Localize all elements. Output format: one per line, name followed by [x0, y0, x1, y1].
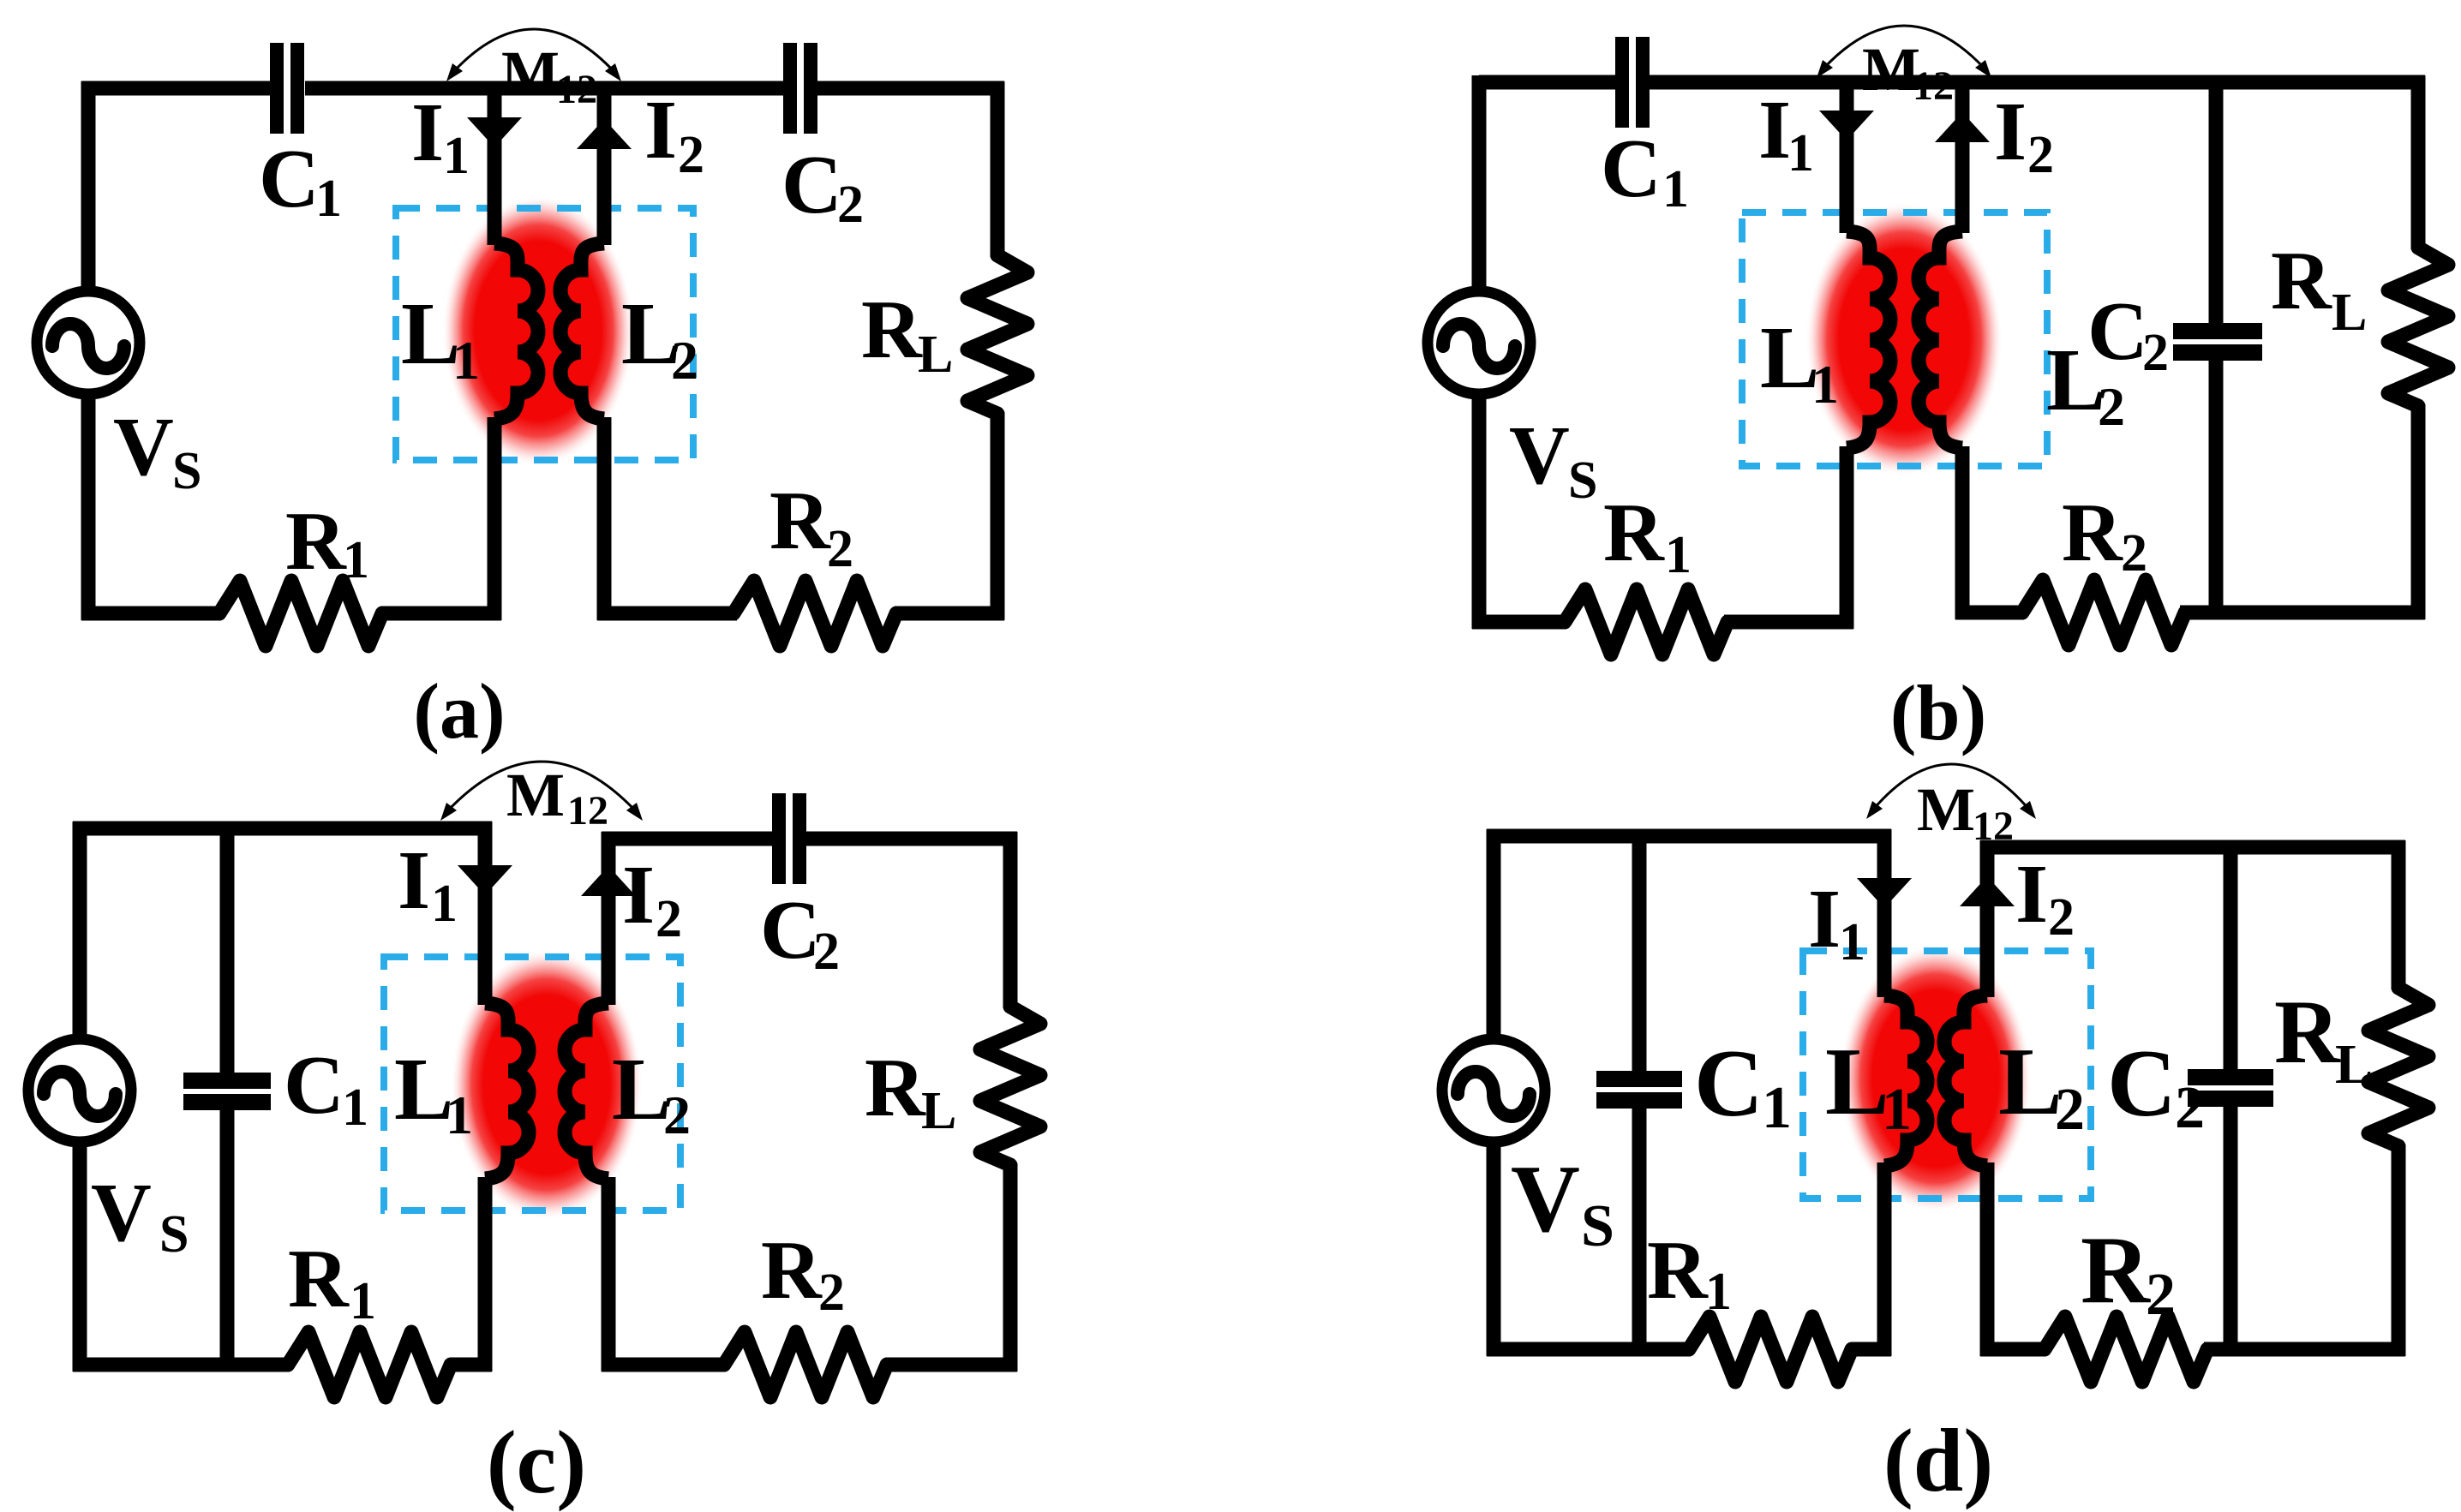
- coupling glow (b): [1805, 202, 2003, 476]
- svg-text:2: 2: [663, 1085, 691, 1145]
- wire left upper (c): [73, 822, 87, 1039]
- svg-text:2: 2: [2175, 1075, 2205, 1141]
- svg-text:R: R: [2271, 235, 2332, 327]
- svg-text:C: C: [2087, 285, 2148, 378]
- wire L2 branch upper (b): [1955, 75, 1970, 233]
- wire top secondary (d): [1980, 840, 2405, 855]
- wire L1 branch lower (d): [1877, 1162, 1892, 1356]
- svg-text:I: I: [411, 87, 444, 179]
- wire L2 branch lower (a): [597, 417, 612, 620]
- svg-text:2: 2: [2048, 888, 2075, 947]
- wire bottom-left (b): [1472, 615, 1566, 630]
- svg-text:1: 1: [452, 330, 480, 391]
- wire bottom secondary-right (b): [2180, 606, 2425, 620]
- svg-text:1: 1: [1882, 1077, 1912, 1143]
- svg-text:C: C: [1601, 123, 1662, 215]
- capacitor C1 (d): [1596, 1071, 1682, 1087]
- svg-text:(b): (b): [1890, 669, 1986, 756]
- capacitor C2 (b): [2173, 323, 2262, 339]
- svg-text:R: R: [288, 1233, 350, 1325]
- inductor L2 (c): [565, 1003, 608, 1179]
- svg-text:2: 2: [2098, 376, 2125, 437]
- current arrow I1 (a): [467, 117, 522, 147]
- wire bottom secondary-left (a): [597, 607, 737, 621]
- svg-text:M: M: [506, 761, 565, 829]
- capacitor C1 (c): [183, 1073, 271, 1089]
- current arrow I1 (d): [1857, 878, 1912, 908]
- wire top-right segment (b): [1650, 75, 2425, 90]
- wire bottom to L1 (b): [1724, 615, 1853, 630]
- inductor L2 (d): [1944, 995, 1987, 1166]
- svg-text:L: L: [918, 326, 953, 384]
- svg-text:1: 1: [1787, 124, 1814, 182]
- coupling glow (c): [451, 949, 643, 1220]
- svg-text:S: S: [1581, 1193, 1614, 1259]
- wire bottom to L1 (a): [380, 607, 501, 621]
- svg-text:1: 1: [431, 875, 458, 933]
- svg-text:R: R: [861, 284, 923, 376]
- wire left upper (a): [81, 81, 96, 292]
- svg-text:R: R: [1603, 487, 1665, 579]
- svg-text:V: V: [1509, 409, 1570, 502]
- svg-text:I: I: [622, 849, 655, 941]
- wire L2 branch upper (a): [597, 81, 612, 245]
- wire left lower (a): [81, 393, 96, 620]
- svg-text:L: L: [1825, 1029, 1889, 1135]
- capacitor C1 (a): [270, 43, 284, 134]
- svg-text:2: 2: [671, 330, 698, 391]
- wire L2 branch lower (b): [1955, 446, 1970, 619]
- svg-text:L: L: [394, 1040, 453, 1138]
- wire L1 branch lower (b): [1840, 446, 1854, 629]
- inductor L2 (b): [1919, 231, 1962, 448]
- resistor R1 (d): [1689, 1317, 1852, 1382]
- svg-text:I: I: [1808, 873, 1841, 965]
- wire top primary (d): [1487, 829, 1891, 844]
- wire right upper (a): [991, 81, 1005, 257]
- svg-text:12: 12: [556, 67, 597, 112]
- wire C1 branch lower (c): [220, 1109, 235, 1365]
- svg-text:L: L: [1760, 308, 1819, 407]
- wire left upper (b): [1472, 75, 1487, 292]
- svg-text:C: C: [781, 139, 842, 231]
- svg-text:S: S: [1568, 451, 1597, 510]
- wire right lower (d): [2392, 1144, 2406, 1356]
- wire top secondary-right (c): [806, 832, 1017, 846]
- resistor R2 (d): [2045, 1317, 2207, 1382]
- svg-text:1: 1: [1662, 160, 1689, 218]
- svg-text:12: 12: [1913, 63, 1954, 109]
- svg-text:2: 2: [656, 890, 682, 948]
- voltage source VS (b): [1428, 291, 1530, 394]
- svg-text:C: C: [1694, 1031, 1763, 1137]
- wire right upper (b): [2411, 75, 2426, 249]
- svg-text:R: R: [2062, 487, 2123, 579]
- wire L2 branch upper (c): [602, 832, 616, 1005]
- wire left upper (d): [1487, 829, 1501, 1040]
- svg-text:1: 1: [443, 127, 470, 185]
- wire L2 branch lower (d): [1980, 1162, 1995, 1356]
- capacitor C2 (d): [2188, 1069, 2273, 1085]
- svg-text:1: 1: [350, 1272, 376, 1330]
- capacitor C1 (b): [1615, 37, 1629, 128]
- svg-text:2: 2: [2142, 324, 2169, 382]
- wire top-middle segment (a): [305, 81, 783, 96]
- svg-text:C: C: [2107, 1031, 2177, 1137]
- coupling glow (d): [1840, 945, 2032, 1212]
- wire C1 branch upper (c): [220, 828, 235, 1073]
- svg-text:1: 1: [446, 1085, 473, 1145]
- svg-text:I: I: [644, 84, 677, 176]
- svg-text:R: R: [761, 1224, 823, 1317]
- resistor R2 (a): [734, 581, 896, 646]
- resistor RL (c): [980, 1007, 1040, 1165]
- wire bottom to L1 (c): [451, 1358, 492, 1372]
- wire bottom secondary-right (a): [895, 607, 1004, 621]
- svg-text:I: I: [398, 834, 430, 927]
- svg-text:1: 1: [342, 1079, 368, 1137]
- svg-text:V: V: [113, 401, 174, 493]
- inductor L1 (d): [1884, 995, 1927, 1166]
- resistor RL (d): [2368, 988, 2428, 1146]
- wire C2 branch upper (b): [2209, 75, 2224, 326]
- wire right lower (b): [2411, 404, 2426, 619]
- svg-text:1: 1: [343, 531, 369, 589]
- resistor RL (a): [967, 255, 1027, 414]
- wire L1 branch upper (a): [488, 81, 502, 245]
- wire C2 branch lower (b): [2209, 360, 2224, 619]
- svg-text:R: R: [2274, 982, 2341, 1082]
- current arrow I2 (c): [581, 866, 636, 896]
- resistor R2 (c): [724, 1332, 887, 1397]
- capacitor C2 (a): [783, 43, 797, 134]
- wire L2 branch lower (c): [602, 1177, 616, 1372]
- svg-text:S: S: [159, 1205, 189, 1264]
- svg-text:C: C: [760, 884, 821, 977]
- wire left lower (b): [1472, 393, 1487, 629]
- wire bottom secondary-right (d): [2204, 1342, 2405, 1357]
- wire C2 branch upper (d): [2224, 847, 2238, 1069]
- svg-text:(a): (a): [413, 667, 505, 755]
- mutual inductance arrow M12 (c): [447, 762, 636, 811]
- resistor R2 (b): [2022, 580, 2185, 645]
- mutual inductance arrow M12 (a): [453, 29, 614, 72]
- svg-text:L: L: [921, 1082, 956, 1140]
- svg-text:C: C: [284, 1039, 344, 1132]
- svg-text:1: 1: [1762, 1075, 1792, 1141]
- svg-text:1: 1: [1811, 354, 1839, 415]
- svg-text:L: L: [2335, 1033, 2373, 1096]
- wire top secondary-left (c): [602, 832, 773, 846]
- svg-text:2: 2: [813, 923, 840, 981]
- svg-text:2: 2: [2146, 1262, 2176, 1328]
- wire bottom secondary-left (b): [1955, 606, 2024, 620]
- wire left lower (c): [73, 1141, 87, 1372]
- capacitor C2 (c): [772, 793, 786, 884]
- svg-text:(d): (d): [1883, 1410, 1993, 1510]
- wire C1 branch upper (d): [1632, 836, 1647, 1072]
- wire L1 branch lower (a): [488, 417, 502, 620]
- wire L1 branch upper (c): [478, 822, 493, 1005]
- svg-text:2: 2: [818, 1264, 845, 1322]
- wire right upper (d): [2392, 840, 2406, 989]
- svg-text:12: 12: [1973, 804, 2014, 849]
- svg-text:L: L: [612, 1040, 671, 1138]
- svg-text:L: L: [1998, 1029, 2063, 1135]
- wire bottom-left (c): [73, 1358, 290, 1372]
- wire L1 branch upper (b): [1840, 75, 1854, 233]
- wire top-left segment (b): [1479, 75, 1616, 90]
- svg-text:R: R: [1647, 1224, 1709, 1317]
- svg-text:2: 2: [2055, 1077, 2085, 1143]
- svg-text:1: 1: [1705, 1263, 1732, 1321]
- svg-text:2: 2: [2027, 126, 2054, 184]
- svg-text:1: 1: [1665, 526, 1692, 584]
- svg-text:2: 2: [827, 520, 853, 578]
- coupling region dashed box (c): [384, 957, 680, 1210]
- wire bottom to L1 (d): [1852, 1342, 1891, 1357]
- wire bottom-left (d): [1487, 1342, 1691, 1357]
- wire bottom-left (a): [81, 607, 221, 621]
- current arrow I2 (d): [1960, 876, 2015, 906]
- mutual inductance arrow M12 (b): [1823, 26, 1985, 69]
- wire L2 branch upper (d): [1980, 840, 1995, 997]
- inductor L2 (a): [560, 243, 604, 419]
- svg-text:R: R: [865, 1042, 926, 1134]
- svg-text:12: 12: [567, 788, 608, 834]
- current arrow I2 (b): [1935, 112, 1990, 142]
- coupling region dashed box (a): [396, 208, 693, 460]
- svg-text:I: I: [2015, 848, 2048, 941]
- wire bottom secondary-right (c): [885, 1358, 1017, 1372]
- svg-text:2: 2: [837, 176, 864, 234]
- inductor L1 (b): [1847, 231, 1890, 448]
- wire bottom secondary-left (c): [602, 1358, 726, 1372]
- svg-text:M: M: [1917, 775, 1975, 844]
- svg-text:R: R: [2081, 1217, 2151, 1324]
- svg-text:I: I: [1758, 84, 1791, 176]
- svg-text:2: 2: [678, 126, 704, 184]
- wire right lower (c): [1003, 1163, 1018, 1372]
- svg-text:2: 2: [2121, 524, 2147, 583]
- wire top-right segment (a): [817, 81, 1004, 96]
- inductor L1 (c): [485, 1003, 529, 1179]
- svg-text:L: L: [2332, 284, 2367, 342]
- current arrow I1 (c): [458, 865, 512, 895]
- wire L1 branch lower (c): [478, 1177, 493, 1372]
- voltage source VS (a): [37, 291, 140, 394]
- svg-text:R: R: [769, 475, 831, 567]
- svg-text:S: S: [172, 442, 201, 500]
- resistor R1 (b): [1565, 589, 1727, 654]
- svg-text:1: 1: [1839, 913, 1865, 971]
- svg-text:1: 1: [315, 170, 342, 228]
- inductor L1 (a): [494, 243, 538, 419]
- coupling glow (a): [442, 195, 634, 466]
- resistor RL (b): [2388, 248, 2448, 406]
- coupling region dashed box (b): [1742, 212, 2047, 466]
- wire right lower (a): [991, 412, 1005, 620]
- current arrow I2 (a): [577, 119, 632, 149]
- svg-text:(c): (c): [487, 1412, 587, 1512]
- svg-text:M: M: [1862, 35, 1920, 104]
- svg-text:M: M: [501, 39, 560, 107]
- wire right upper (c): [1003, 832, 1018, 1008]
- mutual inductance arrow M12 (d): [1873, 764, 2029, 810]
- svg-text:R: R: [285, 495, 347, 588]
- wire C2 branch lower (d): [2224, 1107, 2238, 1349]
- wire top-left segment (a): [81, 81, 270, 96]
- svg-text:C: C: [259, 133, 320, 225]
- svg-text:L: L: [401, 284, 460, 383]
- wire top primary (c): [73, 822, 492, 836]
- wire left lower (d): [1487, 1141, 1501, 1356]
- resistor R1 (a): [219, 581, 382, 646]
- svg-text:V: V: [91, 1167, 152, 1259]
- current arrow I1 (b): [1819, 111, 1874, 140]
- svg-text:I: I: [1994, 86, 2027, 178]
- wire C1 branch lower (d): [1632, 1109, 1647, 1349]
- voltage source VS (c): [28, 1039, 131, 1142]
- wire L1 branch upper (d): [1877, 829, 1892, 997]
- resistor R1 (c): [288, 1332, 451, 1397]
- voltage source VS (d): [1442, 1039, 1545, 1142]
- wire bottom secondary-left (d): [1980, 1342, 2046, 1357]
- coupling region dashed box (d): [1803, 951, 2091, 1198]
- svg-text:V: V: [1511, 1146, 1580, 1252]
